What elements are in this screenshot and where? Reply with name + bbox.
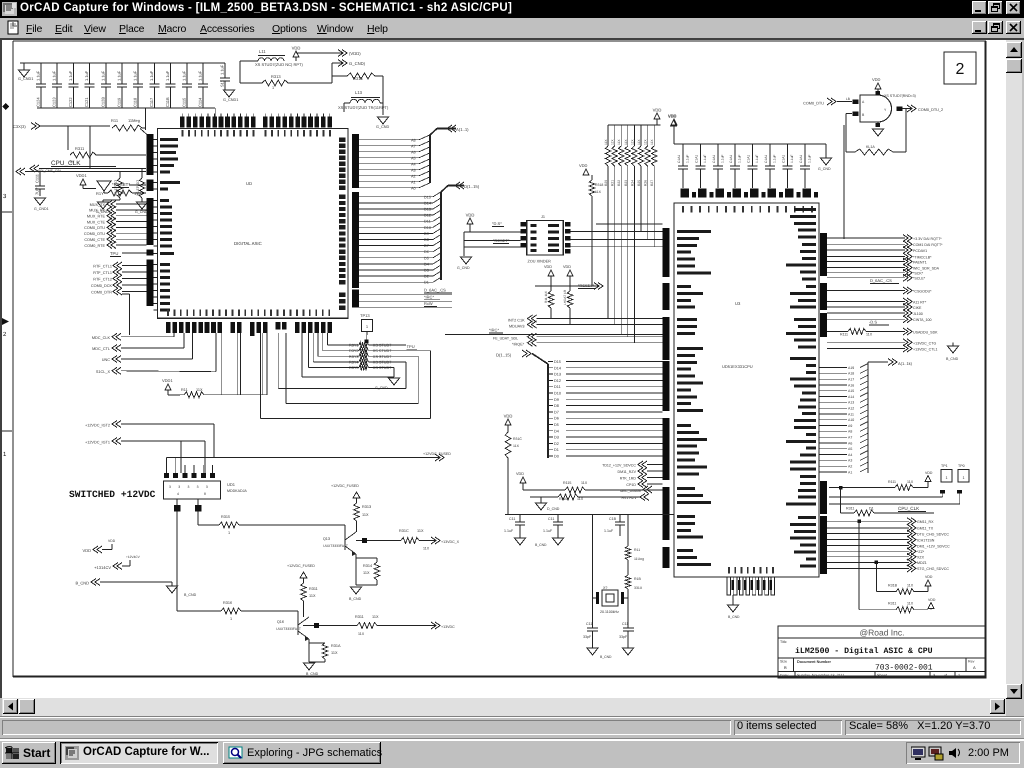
svg-text:D14: D14: [424, 201, 431, 205]
svg-text:+3.3V DAI RQTT*: +3.3V DAI RQTT*: [913, 237, 942, 241]
capacitor C1D1: [734, 144, 736, 166]
ground G_CND1: [224, 90, 235, 97]
svg-text:COM1 DAI RQTT*: COM1 DAI RQTT*: [913, 243, 943, 247]
wire: [28, 171, 30, 173]
wire A16: [819, 384, 847, 386]
svg-text:INT2 C1K: INT2 C1K: [508, 319, 525, 323]
vertical scrollbar: [1006, 40, 1022, 699]
wire A5: [819, 448, 847, 450]
svg-text:1.1uF: 1.1uF: [790, 155, 794, 163]
wire top pin stubs: [181, 114, 183, 117]
wire D11: [548, 386, 553, 388]
ground G_CND: [382, 103, 384, 115]
svg-text:11X: 11X: [617, 139, 621, 145]
wire D13: [548, 373, 553, 375]
svg-text:3: 3: [169, 485, 171, 489]
titlebar restore button: [988, 1, 1003, 15]
bus (thick) right of U2: [352, 134, 359, 188]
svg-text:TP0: TP0: [958, 464, 965, 468]
svg-text:11X: 11X: [362, 513, 369, 517]
svg-text:C1A1: C1A1: [764, 155, 768, 163]
ground: [728, 605, 739, 612]
wire: [875, 562, 877, 591]
svg-text:R31B: R31B: [888, 584, 898, 588]
svg-text:MDC_CTL: MDC_CTL: [92, 347, 110, 351]
wire D9: [548, 398, 553, 400]
capacitor C1B: [619, 515, 621, 523]
capacitor C115: [186, 63, 188, 84]
capacitor C118: [137, 63, 139, 84]
svg-text:D15: D15: [554, 360, 561, 364]
port USADDU_SDK: [903, 328, 912, 335]
svg-text:Y: Y: [884, 108, 887, 112]
svg-text:MUX_RX: MUX_RX: [89, 209, 105, 213]
svg-text:B_CND: B_CND: [946, 357, 959, 361]
wire A7: [359, 145, 419, 147]
transistor Q16: [297, 620, 299, 635]
svg-text:C3X(3): C3X(3): [13, 124, 26, 129]
svg-text:VDD: VDD: [516, 472, 524, 476]
bus A(1..19) collector: [867, 362, 869, 473]
svg-text:1.1uF: 1.1uF: [198, 70, 203, 81]
vscroll down button: [1006, 684, 1022, 699]
svg-text:R26: R26: [644, 180, 648, 186]
svg-text:CPU_CLK: CPU_CLK: [51, 160, 81, 167]
svg-text:3: 3: [206, 485, 208, 489]
resistor R31C pullup: [505, 419, 511, 425]
status panel selection: [734, 720, 842, 735]
wire A3: [359, 169, 419, 171]
svg-text:A1: A1: [411, 180, 416, 184]
svg-text:D(1..15): D(1..15): [496, 353, 512, 358]
offpage port VDD: [338, 50, 347, 57]
resistor pack R2xx pullups: [607, 125, 609, 146]
svg-text:R3Y2: R3Y2: [349, 349, 359, 353]
wire: [129, 294, 131, 335]
svg-text:R313: R313: [271, 74, 281, 79]
svg-text:R311: R311: [75, 146, 85, 151]
svg-text:TP13: TP13: [360, 313, 370, 318]
bus D(1..15) arrow: [455, 182, 464, 189]
ground: [515, 538, 526, 545]
svg-text:SWITCHED +12VDC: SWITCHED +12VDC: [69, 489, 156, 500]
ground: [304, 663, 315, 670]
svg-text:XS STUD7(ZUD TR(11RPT): XS STUD7(ZUD TR(11RPT): [338, 105, 389, 110]
svg-text:A16: A16: [848, 383, 854, 387]
svg-text:11X: 11X: [907, 584, 914, 588]
wire A17: [819, 378, 847, 380]
svg-text:L13: L13: [355, 90, 363, 95]
resistor pack fanout wires: [607, 166, 609, 319]
port +13VDC_CTL1: [827, 348, 905, 350]
port +12VDC_FUSED: [435, 454, 444, 461]
svg-text:+13VDC: +13VDC: [441, 625, 455, 629]
svg-text:RTK_1RD: RTK_1RD: [620, 476, 637, 480]
svg-text:R3Y4: R3Y4: [349, 360, 359, 364]
svg-text:R3Y3: R3Y3: [349, 355, 359, 359]
svg-text:D2: D2: [554, 442, 559, 446]
capacitor C119: [121, 63, 123, 84]
wire D4: [548, 430, 553, 432]
svg-text:+12VDC_FUSED: +12VDC_FUSED: [287, 564, 315, 568]
wire D9: [359, 232, 433, 234]
system tray: [906, 742, 1020, 764]
wire mesh rect loops: [430, 351, 432, 419]
svg-text:1.1uF: 1.1uF: [543, 529, 553, 533]
svg-text:VDD: VDD: [653, 108, 662, 113]
svg-text:+12VDC_IGT2: +12VDC_IGT2: [85, 424, 110, 428]
svg-text:D6: D6: [424, 250, 429, 254]
svg-text:C1A1: C1A1: [712, 155, 716, 163]
svg-text:D9: D9: [554, 398, 559, 402]
svg-text:Q16: Q16: [277, 620, 284, 624]
wire D8: [548, 405, 553, 407]
svg-text:ICH1T1SN: ICH1T1SN: [917, 538, 935, 542]
svg-text:B_CND: B_CND: [600, 655, 612, 659]
svg-text:11X: 11X: [866, 333, 873, 337]
wire D1: [548, 449, 553, 451]
svg-text:R21: R21: [611, 180, 615, 186]
svg-text:R316: R316: [223, 601, 232, 605]
svg-text:Rev: Rev: [968, 660, 975, 664]
zone marker arrow: [2, 318, 9, 325]
svg-text:+12VDC_FUSED: +12VDC_FUSED: [423, 452, 451, 456]
port +13VDC: [431, 537, 440, 544]
svg-text:R31C: R31C: [399, 529, 409, 533]
svg-text:D5: D5: [554, 423, 559, 427]
svg-text:*RESET*: *RESET*: [493, 238, 510, 243]
resistor R311 collector Q16: [303, 578, 305, 583]
ports right group 3: [827, 520, 909, 522]
wire A1: [359, 181, 419, 183]
svg-text:GM11_RX: GM11_RX: [917, 520, 934, 524]
vscroll up button: [1006, 42, 1022, 58]
wire: [596, 223, 663, 225]
svg-text:PAENT1: PAENT1: [913, 260, 927, 264]
svg-text:G_CND: G_CND: [376, 125, 390, 129]
svg-text:C123: C123: [52, 97, 57, 107]
wire A6: [819, 442, 847, 444]
bus A collector: [437, 128, 456, 130]
capacitor C11 33pF right: [627, 598, 629, 628]
capacitor C122: [72, 63, 74, 84]
svg-text:+12VDC_FUSED: +12VDC_FUSED: [331, 484, 359, 488]
svg-text:D3: D3: [424, 269, 429, 273]
svg-text:RxW: RxW: [424, 301, 433, 306]
svg-text:A0: A0: [411, 186, 416, 190]
svg-text:1.1uF: 1.1uF: [755, 155, 759, 163]
svg-text:A3: A3: [848, 459, 852, 463]
capacitor C11 33pF left: [592, 598, 594, 628]
svg-text:R31C: R31C: [513, 437, 522, 441]
svg-text:RTF_CT12: RTF_CT12: [93, 277, 112, 281]
svg-text:C11: C11: [586, 622, 592, 626]
svg-text:G_CND1: G_CND1: [34, 207, 49, 211]
svg-text:1.1uF: 1.1uF: [84, 70, 89, 81]
svg-text:A(1..1): A(1..1): [456, 127, 469, 132]
svg-text:1: 1: [230, 617, 232, 621]
wire A13: [819, 401, 847, 403]
wire: [204, 441, 206, 473]
wire A11: [819, 413, 847, 415]
document icon: [7, 20, 20, 35]
svg-text:VDD: VDD: [579, 163, 588, 168]
svg-text:11X: 11X: [577, 497, 584, 501]
wire A10: [819, 419, 847, 421]
svg-text:R1B: R1B: [634, 577, 641, 581]
titlebar close button: [1006, 1, 1021, 15]
svg-text:VDD1: VDD1: [76, 173, 87, 178]
svg-text:D7: D7: [424, 244, 429, 248]
capacitor C1H1: [804, 144, 806, 166]
capacitor C111: [39, 172, 41, 187]
mdi restore button: [988, 21, 1003, 34]
svg-text:VDD: VDD: [563, 265, 571, 269]
svg-text:RTF_CTL1: RTF_CTL1: [93, 271, 112, 275]
port COM0_DTU_2: [907, 105, 916, 112]
svg-text:1.1uF: 1.1uF: [807, 155, 811, 163]
wire: [197, 499, 199, 505]
svg-text:VDD: VDD: [83, 548, 92, 553]
capacitor C114: [202, 63, 204, 84]
hscroll thumb: [19, 699, 35, 714]
svg-text:CIKE: CIKE: [913, 306, 922, 310]
svg-text:Sunday, November 13, 2111: Sunday, November 13, 2111: [797, 674, 845, 678]
ground: [35, 198, 46, 205]
svg-text:FE_UDAT_SDL: FE_UDAT_SDL: [493, 337, 518, 341]
svg-text:C1B: C1B: [609, 517, 617, 521]
transistor Q13: [344, 535, 346, 550]
svg-text:11X: 11X: [611, 139, 615, 145]
bus A(1..19) arrow: [888, 359, 897, 366]
wire tp0: [957, 490, 962, 494]
svg-text:11X: 11X: [417, 529, 424, 533]
bus stub wires into U2 left: [154, 139, 158, 141]
wire: [344, 102, 350, 104]
svg-text:1.1uF: 1.1uF: [165, 70, 170, 81]
svg-text:UD: UD: [246, 181, 252, 186]
wire D14: [548, 367, 553, 369]
wire: [464, 231, 521, 233]
svg-text:PCDAV1: PCDAV1: [913, 249, 927, 253]
titlebar minimize button: [972, 1, 987, 15]
svg-text:A1: A1: [848, 470, 852, 474]
wire D5: [359, 257, 433, 259]
svg-text:R3Y5: R3Y5: [349, 366, 359, 370]
wire: [40, 125, 110, 127]
wire down to CPU region: [845, 152, 847, 239]
svg-text:D8: D8: [554, 404, 559, 408]
svg-text:11X: 11X: [358, 632, 365, 636]
svg-text:LB: LB: [846, 97, 850, 101]
zone tick: [2, 430, 12, 432]
start button: [2, 742, 56, 764]
U3 bottom pins connector: [727, 577, 731, 595]
wire D6: [359, 251, 433, 253]
svg-text:1.1uF: 1.1uF: [133, 70, 138, 81]
svg-text:UUXT3333FA1T: UUXT3333FA1T: [323, 544, 348, 548]
wire: [463, 232, 465, 256]
wire decoupling rail: [505, 514, 674, 516]
U2 bottom pin number blobs: [166, 322, 171, 333]
svg-text:XS STUD7: XS STUD7: [373, 366, 392, 370]
svg-text:*SCK*: *SCK*: [913, 272, 924, 276]
svg-text:11X: 11X: [907, 602, 914, 606]
svg-text:A7: A7: [848, 436, 852, 440]
vscroll thumb: [1006, 59, 1022, 73]
sheet zone number box 2: [944, 52, 976, 84]
wire A6: [359, 151, 419, 153]
svg-text:C124: C124: [36, 97, 41, 107]
wire: [732, 595, 734, 605]
svg-text:11X: 11X: [423, 547, 430, 551]
svg-text:C117: C117: [149, 97, 154, 107]
svg-text:11X: 11X: [644, 139, 648, 145]
svg-text:A6: A6: [411, 150, 416, 154]
svg-text:1.1uF: 1.1uF: [504, 529, 514, 533]
svg-text:G_CND1: G_CND1: [223, 98, 238, 102]
svg-text:A19: A19: [848, 366, 854, 370]
wire D3: [359, 269, 433, 271]
resistor XS_3TVD7 (right): [139, 178, 145, 198]
svg-text:3: 3: [3, 193, 7, 200]
wire top rail: [674, 143, 817, 145]
svg-text:A10: A10: [848, 418, 854, 422]
ground: [817, 143, 826, 145]
hscroll right button: [990, 699, 1005, 714]
wire D15: [359, 196, 433, 198]
svg-text:R311: R311: [309, 587, 318, 591]
svg-text:-D.S: -D.S: [869, 320, 877, 325]
wire A14: [819, 396, 847, 398]
wire: [215, 108, 217, 117]
svg-text:D1: D1: [554, 448, 559, 452]
svg-text:COM0_DTU: COM0_DTU: [803, 102, 824, 106]
scrollbar corner: [1006, 699, 1024, 716]
svg-text:1: 1: [3, 451, 7, 458]
svg-text:C11: C11: [548, 517, 554, 521]
svg-text:TPU: TPU: [407, 344, 415, 349]
wire D1: [359, 281, 433, 283]
U3 top pin number blobs: [681, 189, 690, 198]
ports right group 1: [827, 237, 905, 239]
U3 right pin name labels: [794, 208, 816, 211]
svg-text:Title: Title: [780, 640, 787, 644]
svg-text:1.1uF: 1.1uF: [604, 529, 614, 533]
svg-text:KL1A: KL1A: [866, 145, 875, 149]
svg-text:C1A1: C1A1: [799, 155, 803, 163]
svg-text:3: 3: [178, 485, 180, 489]
wire A5: [359, 157, 419, 159]
svg-text:B: B: [784, 665, 787, 670]
svg-text:VDD: VDD: [872, 77, 881, 82]
svg-text:1.1uF: 1.1uF: [773, 155, 777, 163]
svg-text:COM0_RTE: COM0_RTE: [84, 244, 105, 248]
svg-text:STG_CHG_SDVCC: STG_CHG_SDVCC: [917, 567, 949, 571]
svg-text:Q13: Q13: [323, 537, 330, 541]
svg-text:XS STUD7: XS STUD7: [373, 349, 392, 353]
svg-text:1.1uF: 1.1uF: [220, 64, 225, 75]
wire A12: [819, 407, 847, 409]
svg-text:C11: C11: [622, 622, 628, 626]
ground: [137, 202, 148, 209]
ground G_CND1 for cap bank: [23, 63, 25, 70]
svg-text:COM0_OTU: COM0_OTU: [84, 232, 105, 236]
svg-text:*D.S*: *D.S*: [492, 221, 502, 226]
wire D2: [359, 275, 433, 277]
capacitor C1C1: [717, 144, 719, 166]
svg-text:D15: D15: [424, 195, 431, 199]
wire: [239, 524, 345, 526]
svg-text:XZX: XZX: [917, 556, 925, 560]
U2 top pin name ticks: [182, 130, 184, 137]
svg-text:C1A1: C1A1: [694, 155, 698, 163]
svg-text:LHDAT 1R: LHDAT 1R: [563, 289, 567, 305]
svg-text:1: 1: [958, 674, 960, 678]
capacitor C1E1: [752, 144, 754, 166]
wire: [356, 532, 362, 537]
wire D12: [548, 379, 553, 381]
svg-text:C1A1: C1A1: [677, 155, 681, 163]
capacitor C11 b: [557, 515, 559, 523]
svg-text:R11 11X: R11 11X: [544, 290, 548, 303]
taskbar OrCAD button (active): [60, 742, 218, 764]
svg-text:33pF: 33pF: [583, 635, 592, 639]
svg-text:COM0_CTE: COM0_CTE: [84, 238, 105, 242]
port +13VDC: [431, 622, 440, 629]
svg-text:DTU_CHG_SDVCC: DTU_CHG_SDVCC: [917, 532, 949, 536]
svg-text:C1A1: C1A1: [729, 155, 733, 163]
svg-text:CINTA_100: CINTA_100: [913, 318, 932, 322]
svg-text:R111: R111: [840, 333, 848, 337]
svg-text:D3: D3: [554, 436, 559, 440]
svg-text:+13VDC_CTG: +13VDC_CTG: [913, 341, 936, 345]
connector UD1 top pin blobs: [164, 473, 169, 478]
svg-text:COM0_DCK: COM0_DCK: [91, 284, 113, 288]
wire A1: [819, 471, 847, 473]
svg-text:1.1uF: 1.1uF: [149, 70, 154, 81]
svg-text:*SCLE*: *SCLE*: [913, 277, 926, 281]
port *CSGODU*: [827, 290, 905, 292]
svg-text:R311: R311: [846, 507, 854, 511]
svg-text:C11: C11: [509, 517, 515, 521]
svg-text:B_CND: B_CND: [728, 615, 740, 619]
wire output: [897, 107, 903, 112]
ground: [948, 346, 959, 353]
svg-text:A13: A13: [848, 401, 854, 405]
svg-text:D12: D12: [424, 214, 431, 218]
svg-text:2: 2: [3, 331, 7, 338]
svg-text:11X: 11X: [513, 444, 520, 448]
svg-text:A12: A12: [848, 407, 854, 411]
capacitor C121: [89, 63, 91, 84]
svg-text:MDDKADJA: MDDKADJA: [227, 489, 247, 493]
svg-text:3: 3: [197, 485, 199, 489]
wire: [241, 610, 298, 612]
wire D13: [359, 208, 433, 210]
svg-text:*TIMCCLB*: *TIMCCLB*: [913, 255, 932, 259]
wire: [375, 75, 383, 77]
wire D10: [359, 226, 433, 228]
svg-text:R311: R311: [888, 602, 896, 606]
menu item Edit: [55, 23, 72, 35]
svg-text:A4: A4: [411, 162, 416, 166]
svg-text:B_CND: B_CND: [306, 672, 319, 676]
svg-text:A17: A17: [848, 378, 854, 382]
svg-text:G_CND): G_CND): [349, 61, 366, 66]
svg-text:D8: D8: [424, 238, 429, 242]
title block frame: [778, 626, 986, 678]
